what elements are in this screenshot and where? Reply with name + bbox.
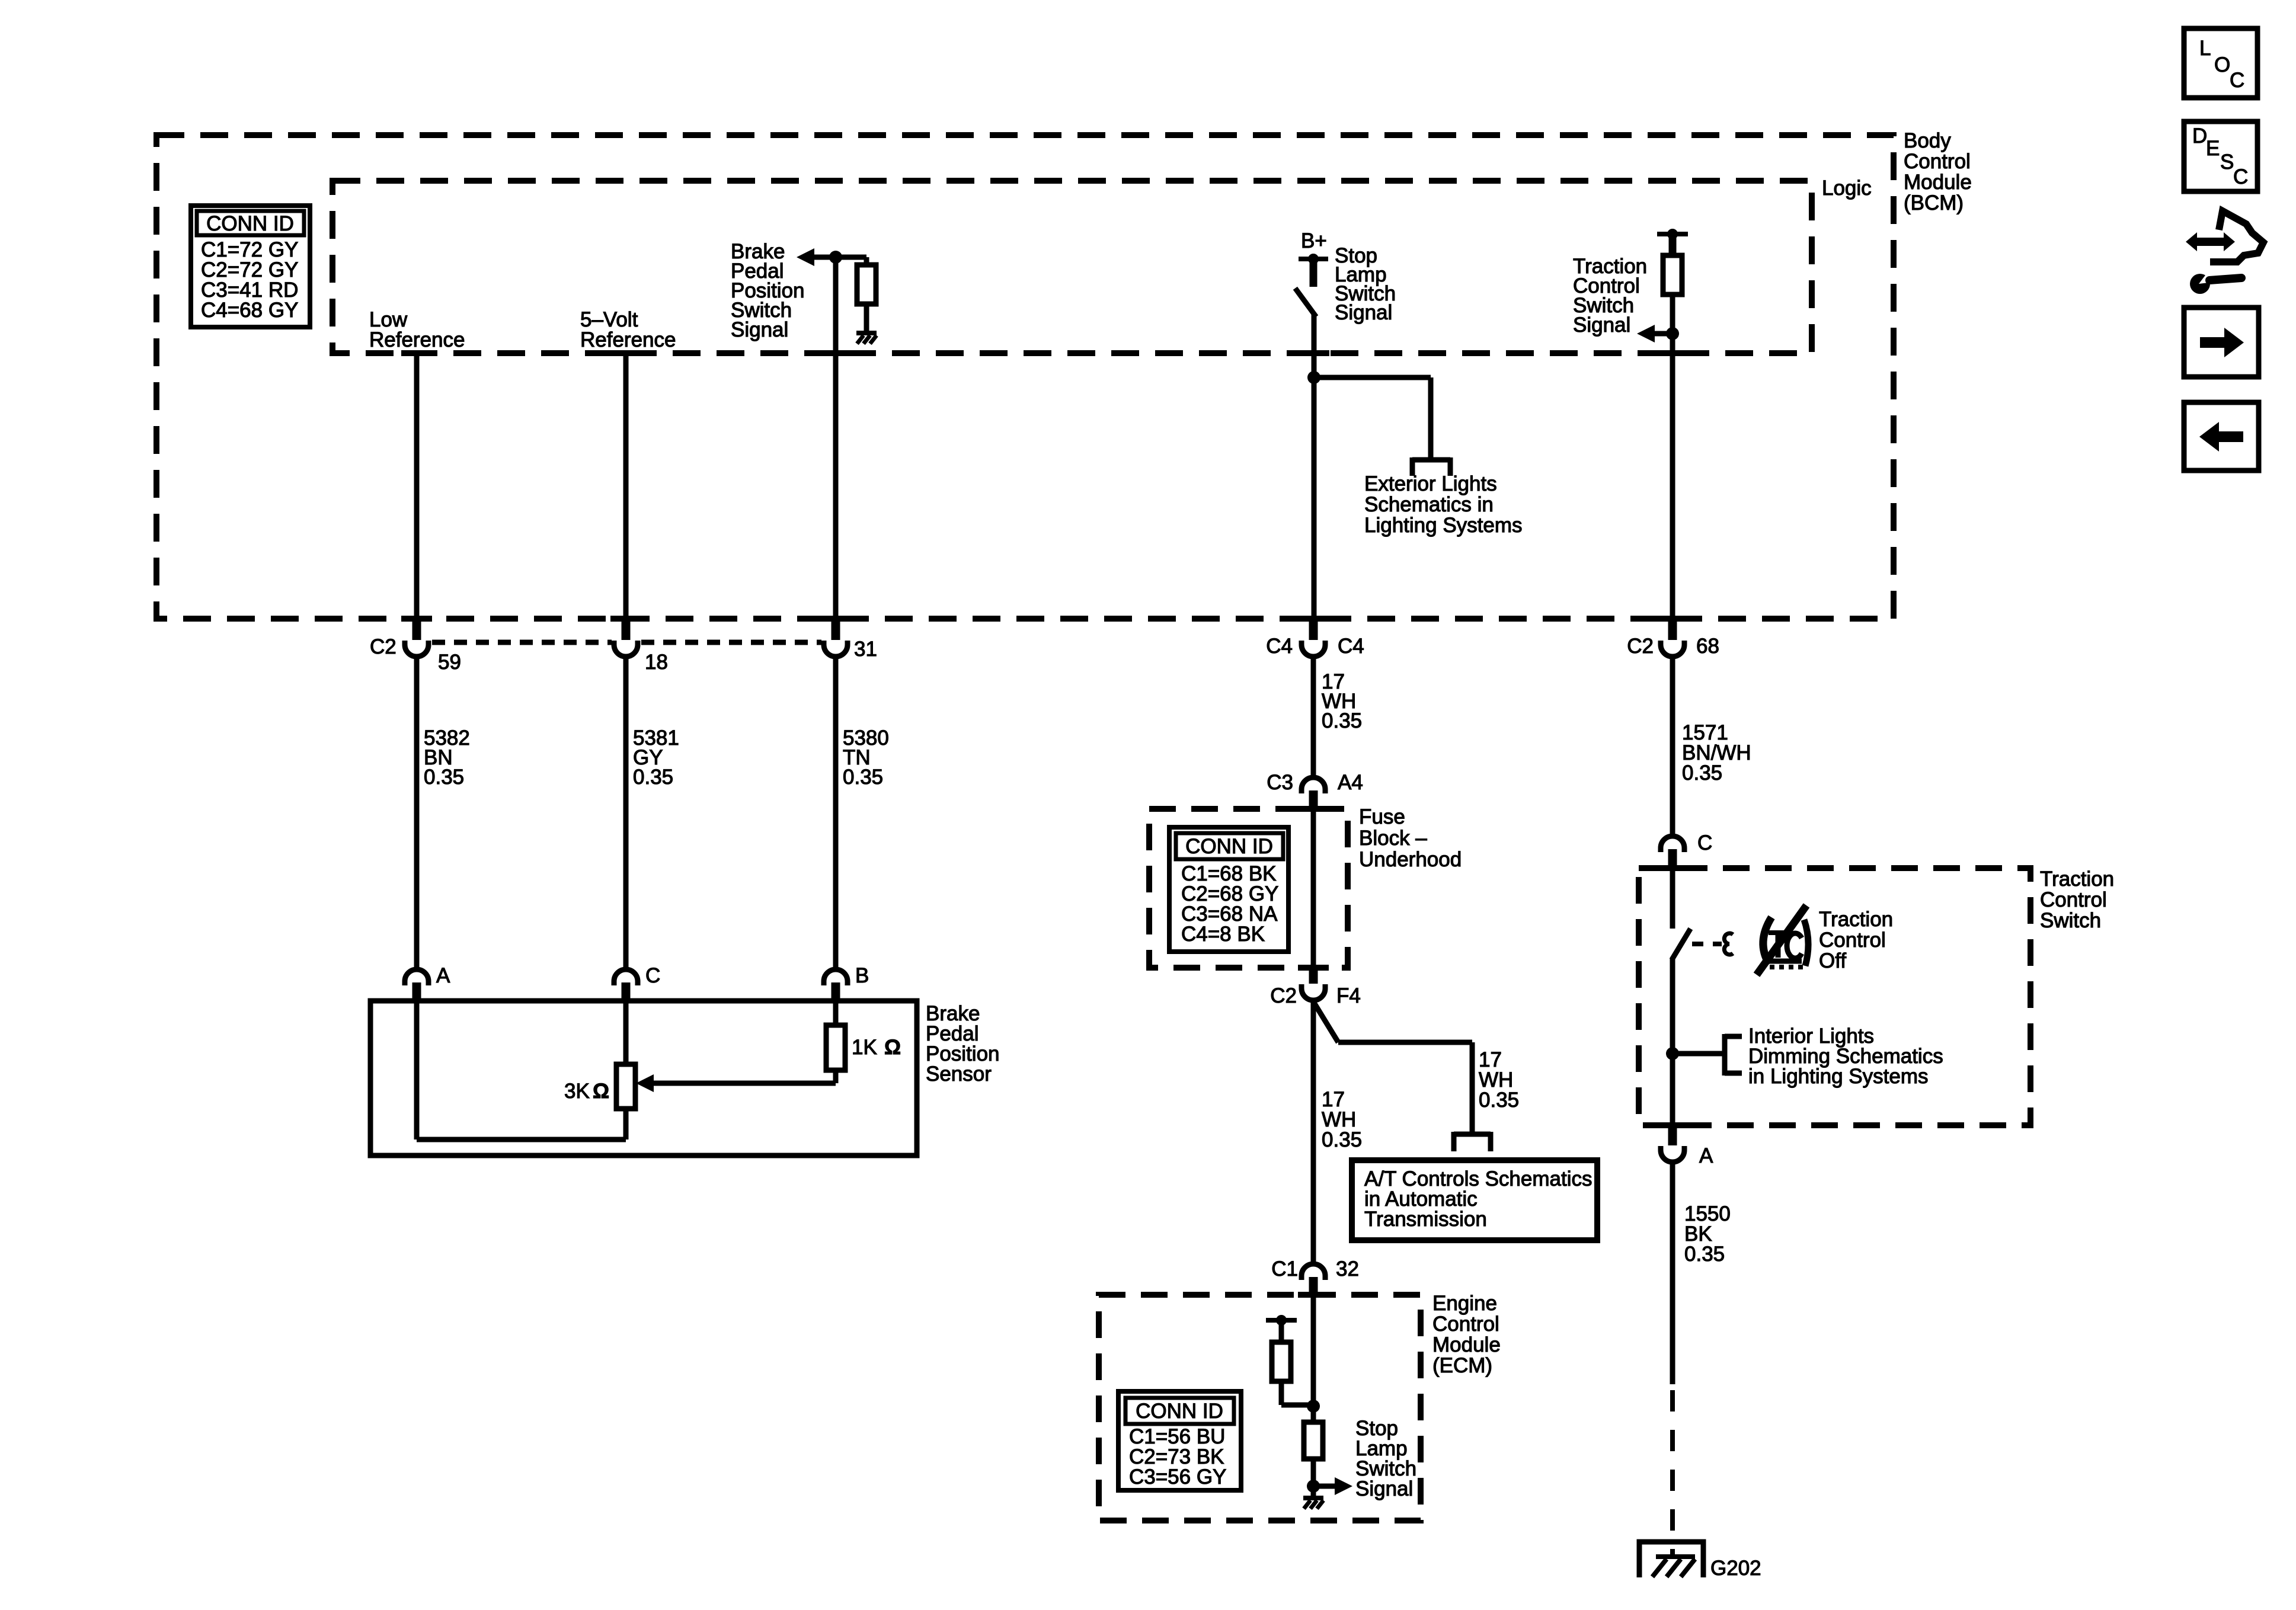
svg-text:E: E <box>2206 137 2220 160</box>
svg-text:C: C <box>645 964 660 987</box>
Low Reference label <box>369 308 465 351</box>
Exterior Lights Schematics label <box>1364 472 1523 537</box>
svg-text:32: 32 <box>1336 1257 1359 1281</box>
potentiometer 3K <box>616 1064 635 1140</box>
svg-text:Control: Control <box>1819 929 1886 952</box>
wire 17 WH 0.35 lower <box>1313 1003 1362 1262</box>
Stop Lamp Switch Signal label in ECM <box>1355 1417 1416 1500</box>
previous schematic icon <box>2184 402 2259 470</box>
connector C of brake pedal position sensor <box>614 964 660 1001</box>
connector pin 18 <box>614 619 668 674</box>
connector C2 F4 <box>1270 968 1361 1007</box>
svg-text:Control: Control <box>1904 150 1971 173</box>
pull-up resistor in ECM <box>1272 1342 1313 1405</box>
svg-text:A: A <box>1699 1144 1713 1167</box>
svg-text:Transmission: Transmission <box>1364 1208 1487 1231</box>
svg-text:Body: Body <box>1904 129 1951 152</box>
wire to interior lights node <box>1670 958 1675 1125</box>
wire traction control switch signal <box>1670 295 1675 619</box>
wire 1550 BK 0.35 <box>1673 1164 1731 1384</box>
Body Control Module (BCM) dashed box <box>156 135 1894 619</box>
svg-text:D: D <box>2192 124 2207 148</box>
connector C of traction control switch <box>1661 831 1712 868</box>
connector C2 68 <box>1627 619 1719 658</box>
svg-text:(BCM): (BCM) <box>1904 191 1964 215</box>
junction node in ECM <box>1307 1400 1320 1413</box>
svg-text:59: 59 <box>438 651 461 674</box>
svg-text:C4: C4 <box>1266 635 1293 658</box>
ground in BCM <box>856 333 877 344</box>
wire from switch to node <box>1312 315 1317 377</box>
jump icon with wrench <box>2186 211 2263 294</box>
switch actuator symbol <box>1724 933 1733 955</box>
wiper arm arrow <box>636 1070 836 1092</box>
svg-text:(ECM): (ECM) <box>1432 1354 1492 1377</box>
wire C inside sensor <box>623 1001 629 1064</box>
Brake Pedal Position Sensor box <box>370 1001 917 1156</box>
wire brake pedal position switch signal <box>833 261 839 619</box>
svg-text:18: 18 <box>645 651 668 674</box>
ground in ECM <box>1303 1496 1323 1500</box>
Fuse Block Underhood label <box>1359 805 1462 871</box>
junction node traction switch <box>1666 1047 1679 1060</box>
Engine Control Module (ECM) dashed box <box>1099 1295 1421 1521</box>
svg-text:A: A <box>436 964 450 987</box>
svg-text:Signal: Signal <box>1355 1477 1413 1500</box>
wire A inside sensor <box>417 1001 626 1140</box>
Traction Control Switch Signal label <box>1573 255 1647 337</box>
svg-text:Block –: Block – <box>1359 827 1427 850</box>
svg-text:G202: G202 <box>1710 1557 1761 1580</box>
junction node <box>1307 371 1320 384</box>
svg-text:C2: C2 <box>370 635 396 658</box>
svg-text:CONN ID: CONN ID <box>1136 1400 1223 1423</box>
svg-text:CONN ID: CONN ID <box>1185 835 1273 858</box>
svg-text:Control: Control <box>2040 888 2107 911</box>
1K ohm label <box>852 1036 901 1059</box>
wire 5382 BN 0.35 <box>417 659 470 967</box>
svg-text:B+: B+ <box>1301 229 1327 252</box>
svg-text:C2: C2 <box>1627 635 1654 658</box>
traction control switch blade <box>1673 931 1689 958</box>
branch to exterior lights <box>1314 377 1450 476</box>
svg-text:Switch: Switch <box>2040 909 2101 932</box>
branch wire label 17 WH 0.35 <box>1479 1048 1519 1112</box>
connector A of brake pedal position sensor <box>405 964 450 1001</box>
connector C2 pin 59 <box>370 619 461 674</box>
wire stop lamp signal to C4 <box>1312 377 1317 619</box>
node on brake pedal position switch signal wire <box>829 251 842 264</box>
ECM CONN ID table <box>1118 1391 1241 1490</box>
svg-text:C: C <box>1697 831 1712 854</box>
dashed wire to G202 <box>1670 1390 1675 1555</box>
connector link dotted line <box>432 640 821 645</box>
Interior Lights Dimming label <box>1748 1025 1943 1088</box>
arrow to Brake Pedal Position Switch Signal <box>797 248 866 266</box>
svg-text:C3=56 GY: C3=56 GY <box>1129 1465 1226 1489</box>
svg-text:Module: Module <box>1432 1333 1501 1356</box>
branch to interior lights dimming <box>1673 1034 1742 1076</box>
traction control supply terminal <box>1657 229 1688 255</box>
svg-text:Reference: Reference <box>369 328 465 351</box>
connector C4 C4 <box>1266 619 1364 658</box>
pull-up resistor traction control <box>1663 255 1682 295</box>
svg-text:Control: Control <box>1432 1313 1499 1336</box>
arrow stop lamp switch signal <box>1313 1477 1352 1495</box>
svg-text:Sensor: Sensor <box>926 1062 992 1086</box>
Fuse Block Underhood dashed box <box>1149 809 1348 968</box>
svg-text:Traction: Traction <box>1819 908 1893 931</box>
stop lamp switch signal node <box>1307 1480 1320 1493</box>
arrow traction control switch signal <box>1637 325 1679 343</box>
wire 5-Volt Reference inside BCM <box>623 353 629 619</box>
svg-text:0.35: 0.35 <box>1682 761 1722 785</box>
connector C1 32 <box>1271 1257 1359 1296</box>
svg-text:0.35: 0.35 <box>1322 709 1362 732</box>
connector C3 A4 <box>1267 771 1363 809</box>
svg-text:Signal: Signal <box>731 318 788 341</box>
svg-text:0.35: 0.35 <box>1479 1089 1519 1112</box>
svg-text:Fuse: Fuse <box>1359 805 1405 828</box>
switch linkage dashed <box>1692 942 1722 946</box>
svg-text:F4: F4 <box>1336 984 1361 1007</box>
svg-text:31: 31 <box>854 638 877 661</box>
ECM label <box>1432 1292 1501 1377</box>
Stop Lamp Switch Signal label <box>1335 244 1396 324</box>
svg-text:CONN ID: CONN ID <box>206 212 294 235</box>
svg-text:Signal: Signal <box>1335 301 1392 324</box>
Brake Pedal Position Switch Signal label <box>731 240 805 341</box>
Traction Control Switch label <box>2040 868 2114 932</box>
connector B of brake pedal position sensor <box>824 964 869 1001</box>
svg-text:C4=8 BK: C4=8 BK <box>1181 923 1265 946</box>
svg-text:Engine: Engine <box>1432 1292 1497 1315</box>
wire C1 32 into ECM <box>1311 1296 1316 1422</box>
Brake Pedal Position Sensor label <box>926 1002 1000 1086</box>
BCM CONN ID table <box>191 206 310 327</box>
svg-text:Exterior Lights: Exterior Lights <box>1364 472 1497 495</box>
svg-text:Logic: Logic <box>1822 177 1872 200</box>
wire into traction control switch <box>1670 868 1675 929</box>
connector A of traction control switch <box>1661 1125 1713 1167</box>
stop lamp switch <box>1297 290 1315 315</box>
svg-text:Lighting Systems: Lighting Systems <box>1364 514 1523 537</box>
A/T Controls Schematics box <box>1352 1160 1597 1240</box>
svg-text:68: 68 <box>1696 635 1719 658</box>
wire B inside sensor <box>833 1001 839 1025</box>
wire Low Reference inside BCM <box>414 353 420 619</box>
wire 5381 GY 0.35 <box>626 659 679 967</box>
resistor to ground in ECM <box>1304 1422 1323 1459</box>
svg-text:0.35: 0.35 <box>1322 1128 1362 1151</box>
svg-text:Schematics in: Schematics in <box>1364 493 1494 516</box>
svg-text:C4: C4 <box>1338 635 1364 658</box>
svg-text:Module: Module <box>1904 171 1972 194</box>
DESC icon <box>2184 121 2257 191</box>
svg-text:3K: 3K <box>564 1080 590 1103</box>
svg-text:C4=68 GY: C4=68 GY <box>201 299 298 322</box>
svg-text:1K: 1K <box>852 1036 877 1059</box>
Fuse Block CONN ID table <box>1169 827 1288 952</box>
wire through fuse block <box>1311 809 1316 968</box>
svg-text:Reference: Reference <box>580 328 676 351</box>
svg-text:Traction: Traction <box>2040 868 2114 891</box>
svg-text:Ω: Ω <box>884 1036 901 1059</box>
resistor 1K <box>826 1025 845 1070</box>
svg-text:0.35: 0.35 <box>1684 1243 1725 1266</box>
LOC icon <box>2184 28 2257 98</box>
svg-text:C3: C3 <box>1267 771 1293 794</box>
svg-text:C1: C1 <box>1271 1257 1298 1281</box>
Traction Control Off label <box>1819 908 1893 972</box>
svg-text:Underhood: Underhood <box>1359 848 1462 871</box>
svg-text:Ω: Ω <box>593 1080 609 1103</box>
svg-text:Off: Off <box>1819 949 1846 972</box>
svg-text:Signal: Signal <box>1573 313 1630 337</box>
wire 1571 BN/WH 0.35 <box>1673 659 1751 834</box>
svg-text:L: L <box>2199 37 2211 60</box>
Traction Control Off icon <box>1757 905 1808 975</box>
next schematic icon <box>2184 308 2259 377</box>
B+ terminal <box>1299 229 1328 287</box>
5-Volt Reference label <box>580 308 676 351</box>
Traction Control Switch dashed box <box>1639 868 2030 1125</box>
svg-text:in Lighting Systems: in Lighting Systems <box>1748 1065 1928 1088</box>
ground G202 <box>1639 1542 1761 1580</box>
branch wire to A/T controls <box>1314 1003 1491 1151</box>
3K ohm label <box>564 1080 609 1103</box>
svg-text:0.35: 0.35 <box>424 766 464 789</box>
svg-text:0.35: 0.35 <box>633 766 673 789</box>
Logic dashed box <box>332 181 1812 353</box>
svg-text:A4: A4 <box>1338 771 1363 794</box>
connector pin 31 <box>824 619 877 661</box>
BCM label <box>1904 129 1972 215</box>
svg-text:C: C <box>2230 69 2244 92</box>
svg-text:B: B <box>855 964 869 987</box>
wire to ECM ground <box>1311 1459 1316 1496</box>
svg-text:C: C <box>2233 165 2248 188</box>
pull-up resistor in BCM <box>857 257 876 331</box>
svg-text:S: S <box>2220 151 2234 174</box>
wire 17 WH 0.35 upper <box>1313 659 1362 776</box>
svg-text:C2: C2 <box>1270 984 1297 1007</box>
svg-text:0.35: 0.35 <box>843 766 883 789</box>
wire crossing dashes <box>401 353 1688 1295</box>
internal voltage supply <box>1266 1315 1297 1342</box>
svg-text:O: O <box>2214 53 2230 76</box>
wire 5380 TN 0.35 <box>836 659 889 967</box>
